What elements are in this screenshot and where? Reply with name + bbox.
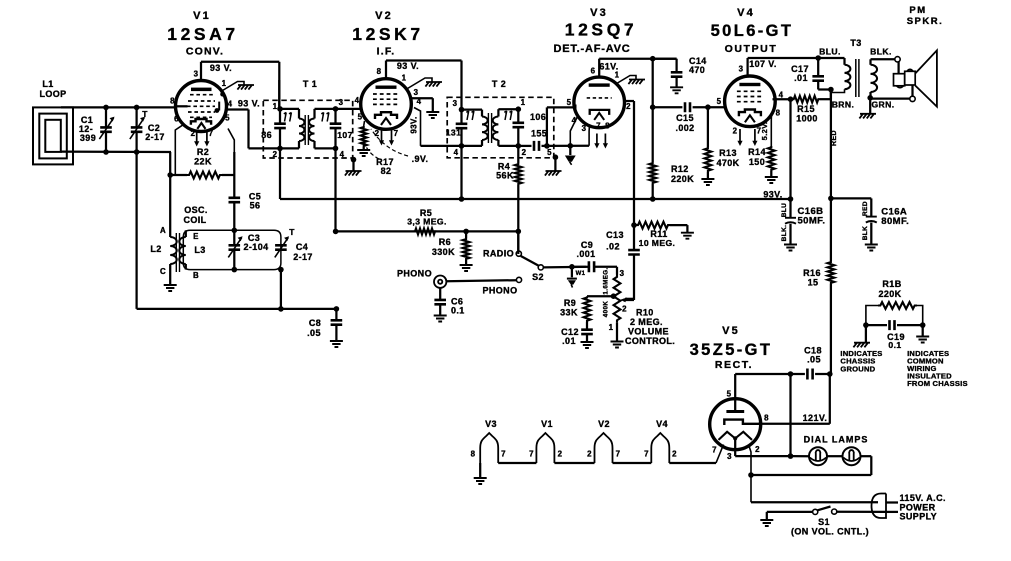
svg-text:82: 82: [381, 166, 392, 176]
osc coil core lines: [176, 233, 179, 272]
resistor R15 1000: [792, 90, 831, 103]
svg-text:T: T: [289, 227, 295, 237]
svg-text:150: 150: [749, 157, 765, 167]
junction RED node / C16A: [828, 196, 834, 202]
svg-text:7: 7: [529, 450, 534, 459]
V2 pin 1 lead: [408, 78, 433, 89]
svg-text:12SQ7: 12SQ7: [565, 20, 637, 40]
svg-text:5: 5: [727, 390, 732, 399]
svg-text:3: 3: [194, 70, 199, 79]
svg-text:R14: R14: [748, 147, 766, 157]
antenna L1 loop winding: [33, 107, 73, 164]
svg-text:12SA7: 12SA7: [167, 24, 239, 44]
svg-text:COIL: COIL: [183, 215, 206, 225]
switch S2 common contact: [538, 265, 543, 270]
svg-text:1: 1: [521, 98, 526, 107]
V5 pin 2 lead down: [749, 445, 752, 503]
resistor R6 330K: [460, 231, 473, 271]
svg-text:3: 3: [727, 452, 732, 461]
wire V3 diode junction: [547, 145, 589, 147]
resistor R13 470K: [701, 107, 714, 185]
svg-text:.001: .001: [576, 249, 595, 259]
switch S1: [767, 507, 886, 515]
speaker title PM SPKR.: [907, 5, 944, 27]
capacitor 155 coupling: [518, 141, 547, 151]
wire C9 to R10 terminal 3: [595, 267, 617, 275]
junction bottom bus / C8 vertical: [334, 306, 340, 312]
tube V1 title 12SA7 CONV.: [167, 10, 239, 58]
svg-text:2: 2: [622, 305, 627, 314]
wire V2 plate top to T2 pin 3: [386, 61, 462, 110]
svg-text:7: 7: [501, 450, 506, 459]
W1 wave marker at detector: [565, 146, 576, 165]
phono jack J1: [434, 276, 446, 288]
capacitor 131 in T2: [456, 110, 468, 146]
svg-text:3: 3: [582, 124, 587, 133]
label C3 2-104: [243, 233, 268, 252]
label C19 0.1: [887, 332, 905, 350]
capacitor C13 .02: [620, 250, 640, 302]
wire V1 plate top to T1 pin 1 (93V): [201, 62, 279, 109]
svg-text:2-17: 2-17: [145, 132, 165, 142]
label C13 .02: [606, 230, 624, 252]
T3 secondary winding: [871, 59, 895, 98]
tube V4 50L6-GT envelope and electrodes: [725, 76, 776, 127]
coil L2 winding: [170, 231, 177, 272]
svg-text:T: T: [142, 109, 148, 119]
svg-text:4: 4: [340, 150, 345, 159]
svg-text:A: A: [160, 226, 166, 235]
svg-text:10 MEG.: 10 MEG.: [639, 238, 676, 248]
V1 filament pin 2 arrow: [196, 132, 198, 142]
wire AVC line: [336, 230, 519, 232]
label C5 56: [249, 192, 261, 211]
T1 slug arrows right: [321, 113, 323, 122]
tube V2 title 12SK7 I.F.: [352, 10, 424, 58]
tube V5 35Z5-GT envelope and electrodes: [710, 399, 761, 450]
svg-text:8: 8: [377, 67, 382, 76]
svg-text:L3: L3: [194, 245, 205, 255]
V4 pin 3 lead to top wire: [746, 58, 748, 76]
wire RED node down from T3 BRN: [830, 90, 832, 199]
svg-text:8: 8: [776, 109, 781, 118]
power plug P1: [872, 494, 899, 519]
svg-text:SPKR.: SPKR.: [907, 16, 944, 27]
junction T2 pin 4: [459, 143, 465, 149]
svg-text:BLK: BLK: [862, 226, 869, 241]
svg-text:C4: C4: [296, 242, 308, 252]
label C9 .001: [576, 240, 595, 259]
junction C5 line / osc box top: [232, 228, 238, 234]
svg-text:BLK.: BLK.: [870, 47, 892, 57]
svg-text:L2: L2: [150, 244, 161, 254]
svg-text:T 1: T 1: [303, 79, 317, 89]
V5 pin 3 center tap lead: [734, 438, 736, 456]
svg-text:C15: C15: [676, 113, 694, 123]
resistor R2 22K: [170, 172, 234, 179]
junction R12 / 93V bus: [650, 196, 656, 202]
wire V5 pin 3 to lamps: [735, 455, 790, 457]
capacitor C18 .05: [791, 369, 830, 380]
label C1 12- 399: [79, 115, 96, 143]
svg-text:4: 4: [572, 116, 577, 125]
chassis ground at V3 pin 1: [628, 80, 645, 85]
junction lamp feed / pin3 wire: [788, 453, 794, 459]
T1 primary top feed from V1 plate: [278, 80, 280, 109]
svg-text:.01: .01: [794, 73, 808, 83]
svg-text:220K: 220K: [671, 174, 694, 184]
svg-text:115V. A.C.: 115V. A.C.: [900, 493, 946, 503]
T3 core lines: [856, 59, 859, 97]
switch S2 radio contact: [516, 231, 521, 256]
wire phono jack to S2 phono contact: [446, 280, 516, 281]
junction T2 pin 1: [516, 106, 522, 112]
chassis ground legend symbol: [853, 325, 870, 347]
junction lamp return / pin 2 line: [748, 472, 754, 478]
svg-text:2: 2: [672, 450, 677, 459]
label R2 22K: [194, 147, 212, 167]
svg-text:RED: RED: [831, 130, 838, 146]
svg-text:4: 4: [417, 97, 422, 106]
ground at S1: [760, 512, 773, 526]
svg-text:155: 155: [531, 129, 547, 139]
svg-text:B: B: [193, 271, 199, 280]
wire lamp return loop: [751, 456, 871, 475]
svg-text:V3: V3: [485, 419, 497, 429]
svg-text:399: 399: [80, 133, 96, 143]
junction C18 left / lamp drop: [788, 371, 794, 377]
svg-text:0.1: 0.1: [451, 306, 465, 316]
svg-text:PM: PM: [909, 5, 926, 16]
label R11 10 MEG.: [639, 229, 676, 248]
label C2 2-17: [145, 123, 165, 142]
svg-text:106: 106: [530, 112, 546, 122]
junction C16B / 93V bus: [788, 196, 794, 202]
junction C15 tee: [650, 104, 656, 110]
junction R13 tee: [705, 104, 711, 110]
svg-text:R2: R2: [197, 147, 209, 157]
wire loop top to V1 grid pin 8: [61, 106, 176, 108]
transformer T1 shield box: [263, 100, 352, 158]
svg-text:OUTPUT: OUTPUT: [725, 43, 778, 55]
oscillator unit box: [183, 230, 281, 269]
V2 filament pin 2 arrow: [381, 130, 383, 142]
svg-text:C8: C8: [309, 318, 321, 328]
label R14 150: [748, 147, 766, 167]
V3 filament pin 7 arrow: [596, 134, 598, 145]
svg-text:0.1: 0.1: [888, 340, 901, 350]
svg-text:GRN.: GRN.: [871, 100, 894, 110]
junction loop top / C1: [103, 105, 109, 111]
svg-text:8: 8: [605, 122, 610, 131]
T2 secondary winding: [493, 109, 519, 146]
svg-text:56K: 56K: [496, 171, 514, 181]
speaker PM SPKR: [894, 50, 937, 106]
svg-text:2 MEG.: 2 MEG.: [630, 317, 663, 327]
svg-text:V2: V2: [375, 10, 393, 22]
svg-text:22K: 22K: [194, 157, 212, 167]
wire to C16A: [831, 198, 871, 216]
svg-text:2: 2: [273, 150, 278, 159]
svg-text:R16: R16: [803, 268, 821, 278]
svg-text:3: 3: [339, 98, 344, 107]
filament hump V3: [480, 433, 498, 463]
junction AVC / T1 secondary return: [333, 229, 339, 235]
svg-text:R9: R9: [564, 298, 576, 308]
resistor R11 10 MEG: [631, 222, 694, 239]
svg-text:80MF.: 80MF.: [881, 216, 909, 227]
V5 pin 7 lead: [716, 445, 724, 464]
capacitor C4 2-17 trimmer: [275, 236, 289, 257]
svg-text:S2: S2: [532, 272, 544, 282]
capacitor C6 0.1: [434, 288, 447, 322]
svg-text:V2: V2: [598, 419, 610, 429]
wire V4 plate to T3 BLU: [748, 57, 845, 59]
svg-text:RED: RED: [862, 201, 869, 216]
capacitor C9 .001: [589, 261, 594, 272]
tube V4 title 50L6-GT OUTPUT: [711, 7, 794, 55]
svg-text:R13: R13: [719, 148, 737, 158]
T1 primary winding: [280, 109, 304, 148]
speaker BLK terminal: [895, 57, 900, 62]
transformer T2 shield box: [447, 97, 554, 158]
svg-text:3: 3: [620, 269, 625, 278]
svg-text:R12: R12: [671, 164, 689, 174]
label OSC. COIL: [183, 205, 207, 225]
V1 pin 5 lead down to C5 line: [228, 129, 234, 153]
junction R2 left / loop-osc vertical: [167, 172, 173, 178]
V1 pin 4 wire to T1 pin 2: [226, 110, 280, 149]
svg-text:2: 2: [558, 450, 563, 459]
svg-text:R10: R10: [636, 308, 654, 318]
wire screen node down to 93V bus: [789, 99, 791, 199]
resistor R12 220K: [649, 59, 656, 199]
svg-text:.05: .05: [807, 355, 821, 365]
svg-text:OSC.: OSC.: [184, 205, 208, 215]
V1 pin 6 lead down to R2: [175, 125, 183, 176]
label R18 220K: [878, 279, 901, 299]
svg-text:15: 15: [808, 278, 819, 288]
wire filament V4-V5: [669, 462, 716, 464]
V3 filament pin 8 arrow: [604, 134, 606, 145]
svg-text:7: 7: [596, 122, 601, 131]
label R17 82: [376, 157, 394, 176]
svg-text:4: 4: [454, 148, 459, 157]
svg-text:1: 1: [609, 323, 614, 332]
svg-text:S1: S1: [818, 517, 830, 527]
svg-text:CONTROL.: CONTROL.: [625, 336, 675, 346]
resistor R14 150: [765, 146, 778, 183]
ground at L2 terminal C: [164, 272, 177, 291]
label R9 33K: [560, 298, 578, 318]
svg-text:2: 2: [587, 450, 592, 459]
capacitor 106 in T2: [513, 109, 525, 146]
junction T2 pin 3: [459, 107, 465, 113]
T1 secondary winding: [309, 109, 335, 148]
T2 primary winding: [462, 110, 488, 146]
svg-text:1: 1: [402, 74, 407, 83]
junction T1 pin 2: [277, 146, 283, 152]
junction T1 pin 4: [333, 146, 339, 152]
junction R9 tap on R10: [611, 293, 617, 299]
chassis ground below T2: [545, 154, 562, 175]
svg-text:BLU: BLU: [781, 203, 788, 218]
svg-text:4: 4: [355, 96, 360, 105]
svg-text:V1: V1: [193, 10, 211, 22]
svg-text:7: 7: [757, 127, 762, 136]
V4 filament pin 2 arrow: [739, 129, 741, 142]
wire secondary return to GRN terminal: [870, 97, 910, 99]
svg-text:7: 7: [209, 129, 214, 138]
T1 core lines: [305, 115, 308, 145]
svg-text:LOOP: LOOP: [39, 89, 66, 99]
svg-text:4: 4: [228, 100, 233, 109]
svg-text:131: 131: [446, 128, 462, 138]
label C17 .01: [791, 64, 809, 83]
svg-text:1000: 1000: [796, 114, 818, 124]
svg-text:W1: W1: [576, 271, 586, 277]
svg-text:1: 1: [222, 79, 227, 88]
svg-text:R1B: R1B: [882, 279, 901, 289]
chassis ground below T1: [345, 157, 362, 176]
svg-text:93 V.: 93 V.: [397, 61, 419, 71]
wire V3 grid from T2: [547, 107, 574, 145]
capacitor C16A 80MF: [865, 217, 878, 251]
capacitor C16B 50MF: [784, 199, 797, 251]
svg-text:T 2: T 2: [492, 79, 506, 89]
label C6 0.1: [451, 297, 465, 316]
V1 filament pin 7 arrow: [206, 132, 208, 142]
wire filament V3-V1: [498, 462, 536, 464]
svg-text:PHONO: PHONO: [482, 286, 517, 296]
junction plate line / R12: [650, 56, 656, 62]
dashed leader R17 to resistor: [365, 141, 380, 159]
svg-text:3: 3: [414, 88, 419, 97]
junction BLU node: [815, 55, 821, 61]
R10 wiper arrow: [625, 298, 634, 300]
label R12 220K: [671, 164, 694, 184]
W1 wave marker at switch: [567, 267, 577, 288]
wire AC line upper: [751, 501, 878, 503]
svg-text:I.F.: I.F.: [377, 46, 396, 58]
svg-text:1: 1: [615, 71, 620, 80]
capacitor 86 in T1: [274, 109, 286, 148]
tube V3 12SQ7 envelope and electrodes: [574, 77, 625, 128]
svg-text:VOLUME: VOLUME: [628, 327, 669, 337]
capacitor C1 12-399 variable: [99, 107, 114, 152]
label 400K 1.6MEG rotated: [603, 267, 610, 317]
svg-text:93 V.: 93 V.: [238, 99, 260, 109]
svg-text:93V.: 93V.: [410, 116, 419, 133]
capacitor C3 2-104 trimmer: [228, 230, 242, 269]
junction T2 feed / 93V bus: [459, 196, 465, 202]
legend text INDICATES CHASSIS GROUND: [840, 349, 882, 373]
capacitor 107 in T1: [330, 109, 342, 148]
svg-text:3: 3: [739, 65, 744, 74]
svg-text:7: 7: [616, 450, 621, 459]
label R10 2 MEG. VOLUME CONTROL: [625, 308, 675, 347]
chassis ground at V2 pin 1: [425, 82, 442, 87]
coil L3 winding: [179, 230, 186, 269]
svg-text:SUPPLY: SUPPLY: [900, 512, 938, 522]
junction T2 pin 2: [516, 143, 522, 149]
wire filament V2-V4: [613, 462, 652, 464]
svg-text:2: 2: [733, 127, 738, 136]
svg-text:56: 56: [250, 201, 261, 211]
svg-text:1.6MEG.: 1.6MEG.: [603, 267, 610, 294]
wire loop bottom to osc corner: [61, 152, 171, 176]
V1 pin 1 lead: [223, 82, 245, 91]
junction T1 pin 1: [277, 106, 283, 112]
svg-text:8: 8: [764, 414, 769, 423]
svg-text:T3: T3: [850, 38, 861, 48]
svg-text:V5: V5: [722, 325, 740, 337]
tube V3 title 12SQ7 DET.-AF-AVC: [553, 7, 637, 55]
junction C3 bottom / osc box bottom: [232, 267, 238, 273]
label L1 LOOP: [39, 79, 66, 99]
svg-text:1: 1: [273, 102, 278, 111]
svg-text:50MF.: 50MF.: [798, 216, 826, 227]
label C12 .01: [561, 327, 579, 346]
tube V5 title 35Z5-GT RECT.: [690, 325, 773, 371]
V2 pin 8 lead to top wire: [385, 61, 387, 79]
svg-text:6: 6: [174, 115, 179, 124]
svg-text:.02: .02: [606, 242, 620, 252]
junction BRN node: [828, 87, 834, 93]
resistor R4 56K: [515, 146, 522, 254]
potentiometer R10 2 MEG volume control: [611, 275, 624, 348]
svg-text:6: 6: [591, 67, 596, 76]
capacitor C2 2-17 trimmer: [130, 107, 145, 152]
capacitor C15 .002: [653, 102, 725, 112]
capacitor C12 .01: [581, 330, 594, 348]
svg-text:E: E: [193, 232, 199, 241]
dashed leader .9V to cathode: [371, 129, 408, 156]
tube V2 12SK7 envelope and electrodes: [361, 79, 412, 130]
capacitor C5 56: [229, 152, 241, 230]
label R16 15: [803, 268, 821, 288]
filament hump V1: [536, 433, 554, 463]
svg-text:107: 107: [337, 130, 353, 140]
svg-text:DIAL LAMPS: DIAL LAMPS: [804, 435, 869, 445]
svg-text:V4: V4: [737, 7, 755, 19]
label C18 .05: [804, 346, 822, 365]
svg-text:PHONO: PHONO: [397, 269, 432, 279]
junction C19 right: [920, 322, 926, 328]
junction loop bottom / C1: [103, 149, 109, 155]
T3 primary winding: [831, 58, 851, 93]
V3 pin 6 lead to top wire: [598, 59, 600, 77]
svg-text:RECT.: RECT.: [715, 359, 753, 371]
common wiring legend symbol: [916, 325, 929, 342]
V1 pin 3 lead to top wire: [200, 62, 202, 81]
svg-text:7: 7: [644, 450, 649, 459]
junction C18 right / RED line: [827, 371, 833, 377]
svg-text:2-104: 2-104: [243, 242, 268, 252]
svg-text:C13: C13: [606, 230, 624, 240]
svg-text:5: 5: [567, 98, 572, 107]
label C15 .002: [675, 113, 694, 133]
capacitor C8 .05: [330, 309, 343, 347]
tube V1 12SA7 envelope and electrodes: [176, 81, 227, 132]
svg-text:4: 4: [779, 91, 784, 100]
label C16A 80MF.: [881, 206, 909, 227]
svg-text:8: 8: [471, 450, 476, 459]
wire T2 B+ feed down to 93V bus: [460, 146, 462, 199]
label C8 .05: [307, 318, 321, 338]
svg-text:330K: 330K: [432, 247, 455, 257]
wire V5 plate to C18: [735, 373, 790, 375]
